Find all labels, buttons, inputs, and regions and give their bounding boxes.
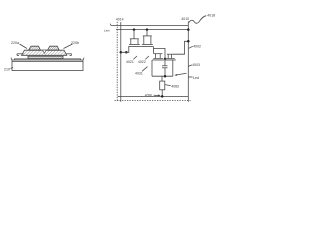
node dot mid [164,58,166,60]
label 4083 [171,85,179,89]
svg-text:4022: 4022 [138,60,146,64]
leader 4031 [142,67,148,72]
gate line (wire1) [111,25,188,27]
leader 210 [11,68,14,69]
label 4021 [126,60,134,64]
svg-text:Led: Led [193,76,199,80]
svg-text:4010: 4010 [181,17,189,21]
leader 4003 [188,65,192,67]
wire loop bottom [152,75,173,77]
label 220a [11,41,19,45]
transistor 4021 [128,30,141,47]
wire mid node [153,48,165,58]
svg-text:Line: Line [104,28,110,32]
label Led [193,76,199,80]
svg-text:4002: 4002 [193,45,201,49]
label 4002 [193,45,201,49]
leader 220a [20,44,28,49]
node dot wire2/T1 [133,28,136,31]
node dot cathode [161,95,164,98]
wire EL to cathode [161,90,163,97]
label 4090 [145,93,153,97]
base layer [17,54,72,56]
wire to EL element [161,76,163,81]
svg-text:4018: 4018 [207,13,215,17]
label Line [104,28,110,32]
svg-text:210: 210 [4,68,10,72]
wire gate of 4022 down [153,47,155,54]
svg-text:4003: 4003 [192,63,200,67]
node dot wire2/power [187,28,190,31]
label 220b [71,41,79,45]
label 4018 [207,13,215,17]
channel notch [43,50,47,53]
label 4010 [181,17,189,21]
wire gate of 4021 to source line [121,47,129,53]
node dot branch mid [125,51,128,54]
leader 4002 [189,46,193,48]
source line 4014 [120,22,122,102]
pixel boundary dashed bottom [115,100,191,102]
transistor 4003 [165,54,176,60]
wire loop right [172,60,174,76]
transistor 4022 [141,30,154,47]
drain electrode 220b [48,46,60,50]
svg-text:4031: 4031 [135,72,143,76]
source electrode 220a [29,46,41,50]
gate insulator layer [15,59,81,60]
leader 4021 [133,56,137,59]
EL element 4083 [160,81,165,90]
node dot power branch [187,40,190,43]
leader 4022 [145,56,149,59]
pixel boundary dashed left [116,22,118,101]
leader 4018 (wavy) [189,16,206,23]
gate line end tick [109,24,112,26]
node dot loop bottom [164,75,167,78]
gate electrode (hatched strip) [28,56,63,58]
leader arrow 4090 [154,94,161,96]
wire drive to power [173,41,188,54]
power line 4010 [187,21,189,102]
transistor 4002 [152,54,164,60]
substrate 210 [11,58,84,71]
svg-text:4021: 4021 [126,60,134,64]
svg-text:4090: 4090 [145,93,153,97]
svg-text:4014: 4014 [116,18,124,22]
label 4022 [138,60,146,64]
label 4031 [135,72,143,76]
label 210 [4,68,10,72]
leader 4083 [165,85,171,86]
svg-text:220a: 220a [11,41,19,45]
svg-text:4083: 4083 [171,85,179,89]
capacitor 4032 [162,59,168,76]
wire loop left [151,60,153,76]
semiconductor band [22,50,67,55]
cathode line [118,95,189,97]
leader Led arrow [174,73,192,77]
label 4014 [116,18,124,22]
wire2 [116,29,188,31]
label 4003 [192,63,200,67]
node dot source line branch [120,51,123,54]
node dot wire2/T2 [146,28,149,31]
leader 220b [64,44,73,49]
